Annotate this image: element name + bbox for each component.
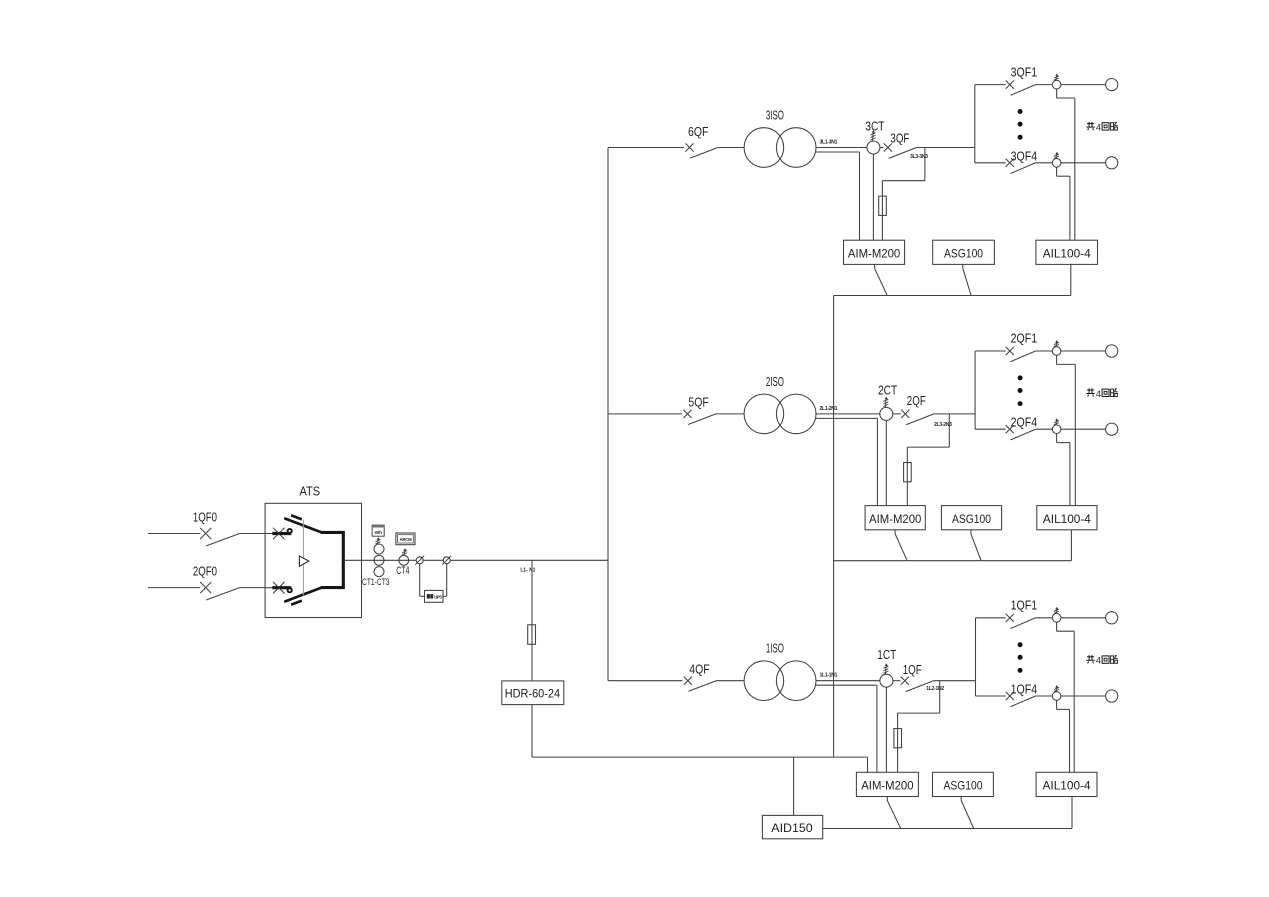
wire 1CT to AIM-M200 [885, 687, 887, 772]
residual current sensor 3QF4 [1052, 159, 1061, 168]
svg-text:1QF: 1QF [903, 663, 922, 677]
wire 3QF4 to sensor [1036, 162, 1053, 164]
ATS moving blade upper [284, 515, 321, 532]
wire AIM-M200 to bus (top) [875, 264, 888, 295]
wire ASG100 to bus (bottom) [961, 797, 974, 829]
wire F1 down to UPS [420, 564, 425, 597]
ATS enclosure box [265, 503, 361, 617]
label net 2L3-2N3 [934, 422, 952, 428]
residual current sensor 1QF4 [1052, 692, 1061, 701]
wire AID150 to bottom panel bus [823, 828, 1072, 830]
wire incoming feeder 2QF0 [148, 587, 200, 589]
monitor module ASG100 (middle) [941, 506, 1001, 530]
wire AIM-M200 to bus (middle) [895, 530, 907, 561]
wire AIL100-4 to bus (bottom) [1071, 797, 1073, 829]
wire 2QF1 to sensor [1036, 350, 1053, 352]
wire ASG100 to bus (middle) [971, 530, 981, 561]
breaker 1QF1 [1006, 614, 1036, 629]
wire tap to fuse 1FU [898, 681, 940, 729]
svg-text:AIL100-4: AIL100-4 [1043, 512, 1091, 526]
label 3ISO [766, 108, 784, 122]
label 1CT [877, 648, 896, 662]
residual current sensor 2QF1 [1052, 347, 1061, 356]
wire HDR-60-24 to bottom bus [531, 705, 533, 758]
svg-text:3CT: 3CT [865, 119, 884, 133]
monitor module AIM-M200 (bottom) [856, 772, 918, 796]
svg-text:ARCM: ARCM [399, 537, 412, 542]
wire fuse 1FU to AIM-M200 [897, 748, 899, 773]
outlet terminal 2QF4 [1106, 423, 1118, 435]
outlet terminal 2QF1 [1106, 345, 1118, 357]
svg-text:2CT: 2CT [878, 383, 897, 397]
residual current sensor 3QF1 [1052, 80, 1061, 89]
svg-text:2QF4: 2QF4 [1011, 416, 1038, 430]
wire sensor 3QF4 to AIL100-4 [1057, 167, 1070, 240]
wire signal bus into AIM-M200 (bottom) [867, 757, 869, 772]
monitor module AIL100-4 (top) [1036, 240, 1098, 264]
svg-text:6QF: 6QF [688, 125, 709, 139]
fuse 1FU [894, 729, 902, 748]
label 2QF [907, 394, 926, 408]
wire ATS output [343, 559, 608, 561]
svg-text:CT4: CT4 [396, 565, 409, 577]
svg-text:L1-: L1- [520, 568, 527, 574]
arrow sensor 1QF1 [1054, 607, 1059, 614]
monitor ARCM box [396, 533, 415, 545]
svg-text:2ISO: 2ISO [766, 375, 784, 389]
isolation transformer 1ISO [744, 661, 816, 701]
wire fuse 3FU to AIM-M200 [881, 215, 883, 240]
current transformers CT1-CT3 [374, 544, 384, 577]
current transformer 3CT [867, 141, 880, 154]
wire 3QF1 to outlet [1061, 84, 1106, 86]
svg-text:AIM-M200: AIM-M200 [861, 779, 913, 793]
svg-text:ASG100: ASG100 [944, 246, 983, 260]
breaker 4QF [684, 677, 717, 692]
wire ASG100 to bus (top) [963, 264, 971, 295]
label 3QF [890, 132, 909, 146]
monitor module AIM-M200 (top) [844, 240, 905, 264]
svg-text:4: 4 [1096, 656, 1101, 666]
arrow 2CT [883, 397, 888, 408]
label 4 circuits panel 2 [1086, 388, 1117, 399]
wire 3QF4 branch [975, 162, 1006, 164]
svg-text:4: 4 [1096, 389, 1101, 399]
svg-text:UPS: UPS [434, 595, 442, 600]
outlet terminal 3QF4 [1106, 157, 1118, 169]
isolation transformer 3ISO [744, 128, 816, 168]
label net 1L1-1N1 [820, 673, 838, 679]
arrow sensor 2QF1 [1054, 340, 1059, 347]
current transformer 2CT [880, 407, 893, 420]
svg-text:1QF4: 1QF4 [1011, 683, 1038, 697]
ellipsis dots panel 1 [1018, 642, 1023, 673]
label 2CT [878, 383, 897, 397]
meter Wh box [372, 525, 384, 536]
residual current sensor 2QF4 [1052, 425, 1061, 434]
panel bus 3 [974, 85, 976, 163]
monitor module ASG100 (top) [933, 240, 995, 264]
fuse FU-HDR [528, 625, 536, 645]
wire 3QF1 branch [975, 84, 1006, 86]
arrow sensor 3QF4 [1054, 152, 1059, 159]
wire sensor 1QF1 to AIL100-4 [1057, 622, 1075, 772]
fuse 2FU [904, 463, 912, 482]
breaker 6QF [685, 143, 718, 158]
signal bus middle panel [834, 560, 1072, 562]
breaker 2QF0 [200, 582, 240, 600]
wire 3QF4 to outlet [1061, 162, 1106, 164]
svg-text:1ISO: 1ISO [766, 642, 784, 656]
wire 3QF1 to sensor [1036, 84, 1053, 86]
ellipsis dots panel 3 [1018, 109, 1023, 140]
main distribution bus [607, 148, 609, 681]
wire sensor 2QF4 to AIL100-4 [1057, 434, 1070, 506]
breaker 1QF0 [200, 528, 240, 546]
wire 2QF1 to outlet [1061, 350, 1106, 352]
arrow 1CT [883, 663, 888, 674]
label CT1-CT3 [362, 577, 390, 588]
svg-text:3QF: 3QF [890, 132, 909, 146]
outlet terminal 1QF4 [1106, 690, 1118, 702]
wire bus to AID150 [793, 757, 795, 815]
wire fuse 2FU to AIM-M200 [906, 482, 908, 506]
breaker 3QF4 [1006, 159, 1036, 174]
wire sensor 1QF4 to AIL100-4 [1057, 700, 1070, 772]
ATS actuator triangle [299, 556, 308, 566]
label 4 circuits panel 3 [1086, 122, 1117, 132]
current transformer CT4 [399, 555, 409, 565]
breaker 2QF4 [1006, 425, 1036, 440]
wire 3ISO to 3CT [816, 147, 884, 149]
monitor module AIL100-4 (middle) [1037, 506, 1097, 530]
label net 3L3-3N3 [910, 154, 928, 160]
label 1QF0 [193, 511, 217, 525]
signal bus bottom horizontal [532, 756, 868, 758]
monitor module AID150 [762, 815, 822, 838]
label 6QF [688, 125, 709, 139]
wire 1ISO to 1CT [816, 680, 901, 682]
wire 2QF4 to sensor [1036, 428, 1053, 430]
wire 3QF to panel [917, 147, 975, 149]
svg-text:CT1-CT3: CT1-CT3 [362, 577, 390, 588]
wire 2ISO to 2CT [816, 413, 901, 415]
svg-text:3L3-3N3: 3L3-3N3 [910, 154, 928, 160]
wire bus to 4QF [608, 680, 683, 682]
wire 1QF1 branch [976, 617, 1006, 619]
breaker 1QF [901, 677, 934, 692]
svg-text:4: 4 [1096, 122, 1101, 132]
label 5QF [688, 395, 709, 409]
label 2QF0 [193, 565, 217, 579]
wire 2QF0 to ATS [240, 587, 266, 589]
ATS common bracket [321, 532, 343, 587]
svg-text:HDR-60-24: HDR-60-24 [505, 686, 560, 700]
fused tap F1 [415, 556, 424, 565]
ATS moving blade lower [284, 588, 321, 605]
svg-text:1L2-1N2: 1L2-1N2 [926, 686, 944, 692]
arrow sensor 1QF4 [1054, 685, 1059, 692]
label 2QF4 [1011, 416, 1038, 430]
monitor module ASG100 (bottom) [933, 772, 994, 796]
wire 1QF to panel [934, 680, 976, 682]
wire sensor 3QF1 to AIL100-4 [1057, 89, 1075, 240]
ellipsis dots panel 2 [1018, 375, 1023, 406]
outlet terminal 1QF1 [1106, 612, 1118, 624]
arrow sensor 3QF1 [1054, 74, 1059, 81]
ATS pole contact 2 (from 2QF0) [265, 582, 292, 594]
wire 1QF1 to outlet [1061, 617, 1106, 619]
fuse 3FU [879, 196, 887, 215]
label net 2L1-2N1 [820, 406, 838, 412]
svg-text:1L1-1N1: 1L1-1N1 [820, 673, 838, 679]
wire 2QF4 branch [975, 428, 1006, 430]
wire fuse to HDR-60-24 [531, 644, 533, 681]
fused tap F2 [442, 556, 451, 565]
wire 5QF to 2ISO [716, 413, 744, 415]
svg-text:3ISO: 3ISO [766, 108, 784, 122]
panel bus 2 [974, 351, 976, 429]
ATS pole contact 1 (from 1QF0) [265, 528, 292, 540]
wire 6QF to 3ISO [718, 147, 744, 149]
isolation transformer 2ISO [744, 394, 816, 434]
svg-text:AID150: AID150 [771, 821, 812, 835]
breaker 2QF [901, 410, 934, 425]
svg-text:1CT: 1CT [877, 648, 896, 662]
wire sensor 2QF1 to AIL100-4 [1057, 355, 1076, 505]
power supply HDR-60-24 [502, 681, 564, 705]
svg-text:AIL100-4: AIL100-4 [1043, 246, 1091, 260]
breaker 2QF1 [1006, 347, 1036, 362]
svg-text:1QF1: 1QF1 [1011, 599, 1038, 613]
wire 3ISO neutral to AIM-M200 [816, 152, 860, 240]
label net 1L2-1N2 [926, 686, 944, 692]
label 4 circuits panel 1 [1086, 655, 1117, 666]
svg-text:2QF1: 2QF1 [1011, 332, 1038, 346]
svg-text:4QF: 4QF [689, 663, 710, 677]
svg-text:2L1-2N1: 2L1-2N1 [820, 406, 838, 412]
svg-text:Wh: Wh [375, 530, 383, 536]
label net 3L1-3N1 [820, 140, 838, 146]
panel bus 1 [975, 618, 977, 696]
wire 1QF1 to sensor [1036, 617, 1053, 619]
current transformer 1CT [880, 674, 893, 687]
breaker 1QF4 [1006, 692, 1036, 707]
label 3QF4 [1011, 149, 1038, 163]
wire incoming feeder 1QF0 [148, 533, 200, 535]
wire 2QF1 branch [975, 350, 1006, 352]
svg-text:AIM-M200: AIM-M200 [869, 512, 921, 526]
arrow ARCM to CT4 [402, 548, 407, 555]
wire 1ISO neutral to AIM-M200 [816, 685, 877, 772]
monitor module AIL100-4 (bottom) [1036, 772, 1097, 796]
svg-text:2QF0: 2QF0 [193, 565, 217, 579]
svg-text:3QF4: 3QF4 [1011, 149, 1038, 163]
label 1ISO [766, 642, 784, 656]
svg-text:AIM-M200: AIM-M200 [848, 246, 900, 260]
svg-text:5QF: 5QF [688, 395, 709, 409]
ATS actuator line [302, 520, 304, 596]
wire 2CT to AIM-M200 [885, 420, 887, 505]
label 4QF [689, 663, 710, 677]
arrow Wh to CT1-CT3 [375, 537, 380, 544]
svg-text:1QF0: 1QF0 [193, 511, 217, 525]
breaker 3QF1 [1006, 81, 1036, 96]
residual current sensor 1QF1 [1052, 614, 1061, 623]
wire UPS to F2 [443, 564, 447, 597]
svg-text:ATS: ATS [300, 485, 321, 499]
label 1QF1 [1011, 599, 1038, 613]
monitor module AIM-M200 (middle) [865, 506, 925, 530]
breaker 5QF [683, 410, 716, 425]
label 1QF4 [1011, 683, 1038, 697]
label CT4 [396, 565, 409, 577]
wire 2QF to panel [934, 413, 975, 415]
svg-text:ASG100: ASG100 [943, 779, 982, 793]
wire AIL100-4 to bus (top) [1070, 264, 1072, 295]
wire tap to fuse 2FU [907, 414, 949, 463]
wire 1QF0 to ATS [240, 533, 266, 535]
breaker 3QF [884, 143, 917, 158]
label 3CT [865, 119, 884, 133]
wire bus to 5QF [608, 413, 682, 415]
outlet terminal 3QF1 [1106, 79, 1118, 91]
svg-text:2QF: 2QF [907, 394, 926, 408]
signal bus top panel [834, 295, 1071, 297]
wire AIL100-4 to bus (middle) [1070, 530, 1072, 561]
UPS box [425, 590, 444, 602]
svg-text:AIL100-4: AIL100-4 [1043, 779, 1091, 793]
label 1QF [903, 663, 922, 677]
wire 1QF4 branch [976, 695, 1006, 697]
wire 1QF4 to sensor [1036, 695, 1053, 697]
label ATS [300, 485, 321, 499]
arrow sensor 2QF4 [1054, 418, 1059, 425]
svg-text:ASG100: ASG100 [952, 512, 991, 526]
svg-text:3QF1: 3QF1 [1011, 65, 1038, 79]
wire 1QF4 to outlet [1061, 695, 1106, 697]
signal bus riser [833, 296, 835, 758]
wire AIM-M200 to bus (bottom) [887, 797, 900, 829]
arrow 3CT [870, 130, 875, 141]
label 2ISO [766, 375, 784, 389]
wire 2ISO neutral to AIM-M200 [816, 418, 878, 505]
label 2QF1 [1011, 332, 1038, 346]
svg-text:3L1-3N1: 3L1-3N1 [820, 140, 838, 146]
label 3QF1 [1011, 65, 1038, 79]
label L1-N1 [520, 568, 535, 574]
wire 2QF4 to outlet [1061, 428, 1106, 430]
wire tap to HDR-60-24 [531, 560, 533, 625]
wire 3CT to AIM-M200 [872, 154, 874, 240]
wire bus to 6QF [608, 147, 684, 149]
wire 4QF to 1ISO [716, 680, 744, 682]
wire tap to fuse 3FU [882, 148, 925, 197]
